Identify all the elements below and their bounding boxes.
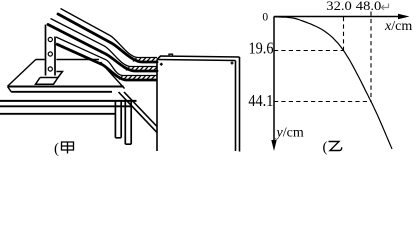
dashed h line 44.1 [274,101,371,103]
ramp rail2 strip [48,25,157,72]
base plate front face [36,78,59,85]
board top back edge [157,56,240,60]
trajectory curve [275,17,393,149]
svg-text:y/cm: y/cm [275,126,304,141]
post hole 2 [48,52,52,56]
table back edge [36,59,99,61]
board left edge [156,60,158,152]
y axis arrow [271,140,276,151]
tabletop slab bottom edge [11,91,112,93]
apron top edge [0,100,137,102]
base plate top face [40,72,63,78]
svg-text:44.1: 44.1 [248,91,273,110]
svg-text:(: ( [54,141,59,157]
svg-text:32.0: 32.0 [326,0,352,13]
label jia glyph [62,142,74,154]
pin right [231,62,234,65]
board top front edge [157,60,236,61]
x axis [274,16,401,18]
ramp rail2 top edge [51,19,158,67]
lower stretcher line [0,113,116,115]
ramp rail1 top edge [61,9,158,58]
word return mark [382,4,389,11]
tabletop front edge [8,86,124,88]
board right outer edge [239,57,241,152]
tabletop slab left chamfer [8,87,12,92]
svg-text:19.6: 19.6 [249,39,274,58]
svg-text:x/cm: x/cm [384,19,412,34]
table right edge D1 [101,62,125,89]
right diagonal inner [119,92,158,133]
dashed v line 32.0 [343,17,345,51]
post hole 1 [48,37,52,41]
pin left [160,63,163,66]
board top clip [169,54,173,56]
ramp rail3 strip [56,44,157,80]
dashed h line 19.6 [274,50,344,52]
svg-text:48.0: 48.0 [356,0,382,13]
post body fill [45,25,57,76]
ramp hatching [119,58,157,79]
x axis arrow [398,14,410,19]
ramp rail3 top edge [56,37,157,76]
tabletop left edge [8,59,37,86]
leg B [125,101,131,144]
label yi glyph [329,142,342,151]
svg-text:0: 0 [262,12,268,24]
right diagonal outer [124,92,157,127]
post right edge [54,37,56,76]
ramp rail1 strip [58,14,157,62]
leg A [115,101,121,138]
dashed v line 48.0 [370,12,372,102]
post hole 3 [48,67,52,71]
board right inner edge [235,61,237,152]
apron bottom edge [0,105,131,107]
y axis [273,17,275,142]
svg-text:(: ( [323,140,328,156]
post left edge [45,25,47,76]
